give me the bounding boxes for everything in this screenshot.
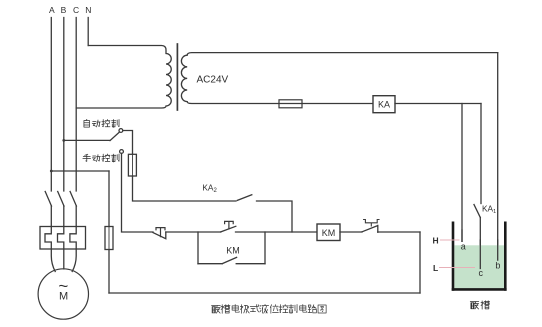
svg-text:AC24V: AC24V — [197, 75, 229, 86]
fuse FU2 (24V line) — [279, 100, 302, 108]
right rail down — [419, 232, 421, 293]
wire manual terminal down — [122, 153, 154, 232]
tap wire to phase A — [51, 170, 109, 172]
wire fuse FU1 to KA2 contact — [133, 176, 237, 201]
svg-text:L: L — [433, 263, 438, 273]
svg-text:KA: KA — [378, 100, 390, 110]
transformer T primary winding — [76, 46, 171, 109]
wire C switch to overload — [75, 206, 77, 227]
FR heater element pole B — [58, 227, 64, 250]
wire fuse to relay KA — [302, 103, 373, 105]
wire down to contact KA1 — [480, 104, 482, 204]
acid tank right wall — [504, 222, 507, 291]
wire start to coil KM — [236, 231, 318, 233]
knob contact operator — [364, 220, 379, 227]
level leader line H — [440, 239, 460, 241]
transformer core — [176, 44, 178, 110]
wire phase C drop — [75, 18, 77, 192]
fuse FU3 — [105, 227, 113, 250]
wire to right rail — [378, 231, 420, 233]
KM aux contact line right — [236, 263, 265, 265]
wire neutral N drop — [87, 18, 89, 46]
transformer T secondary winding — [181, 53, 497, 104]
wire KA1 to electrode c — [479, 218, 481, 269]
contactor coil KM box — [317, 224, 340, 241]
svg-text:B: B — [61, 5, 67, 15]
relay coil KA box — [373, 96, 395, 113]
acid tank bottom — [452, 288, 507, 291]
KM aux contact blade — [222, 257, 236, 263]
label manual control 手动控制 — [83, 154, 119, 162]
contact KA1 blade — [474, 205, 480, 218]
wire phase A drop — [50, 18, 52, 192]
title 酸槽电极式液位控制电路图 — [211, 304, 326, 313]
wire FR to motor right — [72, 249, 76, 272]
svg-text:A: A — [49, 5, 55, 15]
wire KM to knob contact — [340, 231, 362, 233]
wire KA2 to main line — [257, 201, 293, 232]
svg-text:KM: KM — [226, 246, 240, 256]
FR heater element pole C — [70, 227, 76, 250]
knife switch QS blade pole B — [58, 192, 64, 207]
level leader line L — [439, 267, 475, 269]
svg-text:b: b — [495, 260, 500, 270]
svg-text:C: C — [73, 5, 79, 15]
wire phase B drop — [63, 18, 65, 192]
KM aux contact line left — [198, 263, 222, 265]
label auto control 自动控制 — [84, 119, 119, 127]
bottom return rail — [109, 292, 420, 294]
thermal overload relay FR box — [40, 227, 86, 250]
contact KA2 blade — [237, 195, 252, 201]
wire KA to electrodes — [395, 103, 481, 105]
stop button SB1 blade (NC) — [153, 232, 166, 239]
wire secondary to fuse FU2 — [279, 103, 302, 105]
self-hold branch right riser — [264, 232, 266, 264]
return riser — [108, 250, 110, 294]
wire top rail to electrode b — [497, 53, 499, 261]
svg-text:c: c — [478, 268, 483, 278]
start button SB2 blade (NO) — [221, 226, 236, 232]
svg-text:M: M — [59, 291, 68, 303]
tap wire from phase B — [64, 139, 110, 141]
svg-text:KM: KM — [322, 228, 336, 238]
label acid tank 酸槽 — [470, 301, 489, 309]
knife switch QS blade pole A — [45, 192, 51, 207]
wire auto terminal to fuse FU1 — [123, 131, 133, 155]
selector manual terminal — [120, 150, 124, 154]
fuse FU1 — [132, 154, 134, 176]
junction dot A tap — [50, 170, 53, 173]
svg-text:N: N — [85, 5, 91, 15]
wire FR to motor middle — [63, 249, 65, 269]
wire FR to motor left — [51, 249, 55, 272]
motor M circle — [38, 269, 88, 319]
stop button SB1 operator — [156, 228, 165, 237]
re-draw electrode wires over liquid — [462, 230, 498, 269]
wire A switch to overload — [50, 206, 52, 227]
knob contact blade (NO) — [362, 225, 378, 232]
acid liquid — [454, 245, 504, 288]
start button SB2 operator — [225, 221, 234, 228]
wire B switch to overload — [63, 206, 65, 227]
acid tank left wall — [452, 222, 455, 291]
wire stop to start — [166, 231, 221, 233]
knife switch QS blade pole C — [70, 192, 76, 207]
selector switch blade (auto position) — [110, 132, 119, 140]
self-hold branch left drop — [197, 232, 199, 264]
junction dot B tap — [62, 139, 65, 142]
svg-text:a: a — [461, 242, 466, 252]
selector auto terminal — [119, 129, 123, 133]
FR heater element pole A — [45, 227, 51, 250]
wire to electrode a — [461, 104, 463, 242]
svg-text:H: H — [433, 235, 439, 245]
